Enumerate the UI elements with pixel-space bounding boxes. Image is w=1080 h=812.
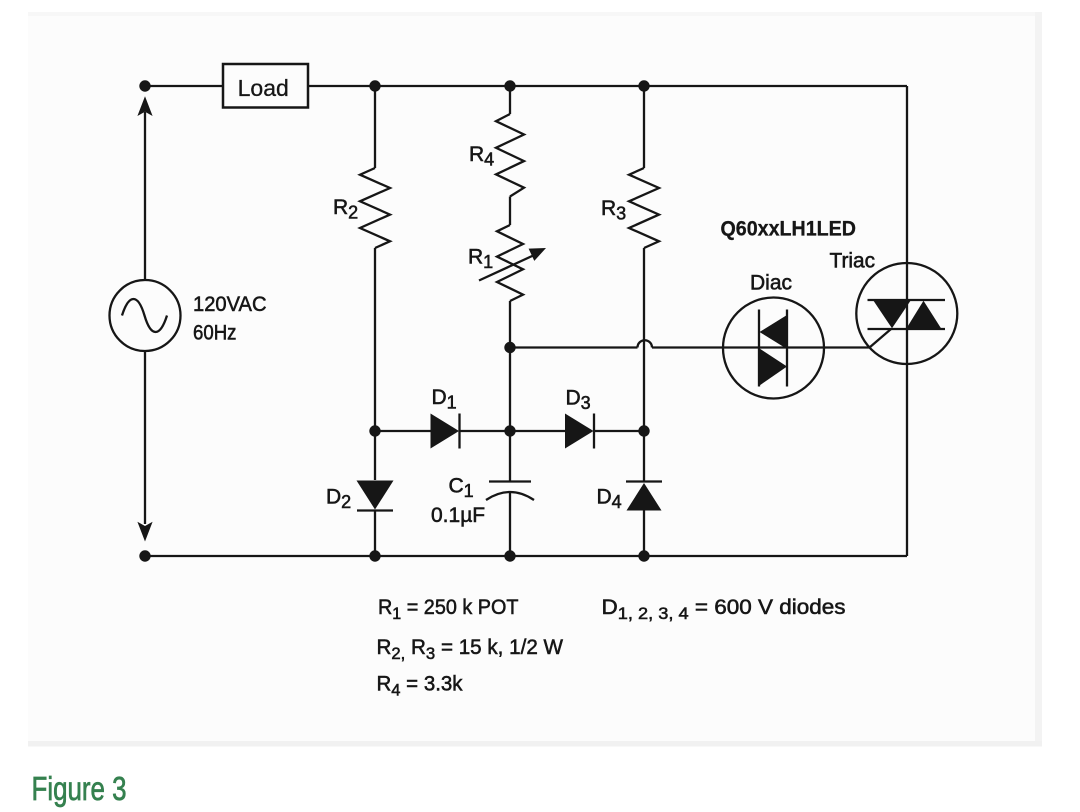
wire crossover hop over R3 branch	[638, 340, 653, 347]
junction node D-row C1	[504, 425, 515, 436]
wire R2 branch upper	[374, 86, 376, 168]
Load box	[223, 64, 308, 108]
wire bottom rail	[145, 555, 907, 557]
junction node D-row R3	[638, 425, 649, 436]
diode D1 triangle	[431, 414, 460, 449]
arrowhead up at top of source branch	[137, 96, 152, 116]
wire R3 branch upper	[643, 86, 645, 168]
wire D-row: D1 cathode to C1 node	[460, 430, 566, 432]
wire D-row node to D4	[643, 431, 645, 481]
junction node top R3	[638, 80, 649, 91]
junction node bottom D4	[638, 550, 649, 561]
potentiometer R1 zigzag	[497, 225, 523, 301]
capacitor C1 top plate	[489, 480, 531, 482]
diode D3 cathode bar	[593, 414, 595, 449]
triac bottom bar MT1	[868, 328, 946, 330]
AC source sine wave	[122, 299, 167, 332]
wire D-row node to D2	[374, 431, 376, 480]
wire left lower from source with arrow	[144, 351, 146, 524]
arrowhead down at bottom of source branch	[137, 522, 152, 542]
svg-text:R2, R3 = 15 k, 1/2 W: R2, R3 = 15 k, 1/2 W	[377, 636, 564, 663]
junction node top R2	[369, 80, 380, 91]
triac left triangle	[874, 301, 911, 329]
svg-text:60Hz: 60Hz	[193, 322, 237, 345]
diode D3 triangle	[565, 414, 594, 449]
svg-text:R4 = 3.3k: R4 = 3.3k	[377, 673, 463, 700]
diode D2 triangle	[357, 481, 394, 510]
svg-text:Load: Load	[238, 75, 289, 101]
wire triac gate diagonal	[870, 329, 892, 348]
wire D-row: D3 cathode to R3 node	[594, 430, 644, 432]
wire R3 to D-row (passes under hop)	[643, 248, 645, 431]
wire mid node to crossover	[510, 346, 638, 348]
svg-text:Figure 3: Figure 3	[32, 771, 127, 808]
junction node D-row left	[369, 425, 380, 436]
junction node bottom C1	[504, 550, 515, 561]
junction node bottom D2	[369, 550, 380, 561]
capacitor C1 curved bottom plate	[486, 492, 534, 500]
AC source circle	[110, 280, 181, 351]
svg-text:120VAC: 120VAC	[193, 293, 267, 316]
diode D4 cathode bar	[626, 480, 662, 482]
triac top bar MT2	[868, 299, 946, 301]
junction node top R4	[504, 80, 515, 91]
potentiometer R1 arrowhead	[529, 248, 546, 261]
diac left bar	[758, 310, 760, 387]
triac circle	[856, 263, 957, 364]
diode D2 cathode bar	[357, 509, 393, 511]
wire R2 to D-row	[374, 248, 376, 431]
resistor R3	[629, 168, 659, 248]
svg-text:Triac: Triac	[830, 250, 876, 273]
wire D-row: R2 node to D1 anode	[375, 430, 431, 432]
diac lower triangle	[760, 349, 788, 386]
diac U1 circle	[723, 298, 824, 399]
wire R4 to R1	[509, 197, 511, 226]
resistor R2	[360, 168, 390, 248]
wire top-left: source node to Load	[145, 85, 223, 87]
wire C1 bottom lead	[509, 493, 511, 557]
triac right triangle	[907, 301, 942, 328]
wire D2 to bottom rail	[374, 511, 376, 557]
resistor R4	[496, 114, 524, 197]
svg-text:Diac: Diac	[750, 272, 792, 295]
wire D4 to bottom rail	[643, 511, 645, 557]
junction node mid wire	[504, 342, 515, 353]
diode D1 cathode bar	[458, 414, 460, 449]
junction node top-left	[139, 80, 150, 91]
wire left upper with arrow to source	[144, 112, 146, 280]
svg-text:Q60xxLH1LED: Q60xxLH1LED	[721, 217, 857, 241]
wire top: Load to top-right corner	[308, 85, 907, 87]
wire crossover to diac and through diac to triac gate	[652, 346, 870, 348]
wire C1 top lead	[509, 431, 511, 481]
diac upper triangle	[760, 315, 788, 349]
wire R4 branch upper	[509, 86, 511, 114]
wire right vertical: top corner through triac to bottom corner	[906, 86, 908, 556]
potentiometer R1 arrow shaft	[479, 254, 537, 281]
diac right bar	[786, 310, 788, 387]
diode D4 triangle	[627, 483, 662, 511]
svg-text:0.1µF: 0.1µF	[431, 504, 485, 527]
wire R1 to C1 branch down	[509, 301, 511, 431]
junction node bottom-left	[139, 550, 150, 561]
